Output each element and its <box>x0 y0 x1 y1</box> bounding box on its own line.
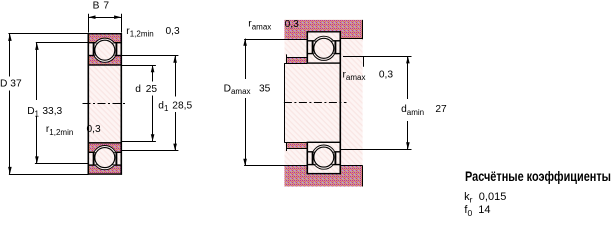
right bearing cross-section <box>307 32 340 174</box>
svg-text:33,3: 33,3 <box>42 106 62 117</box>
outer ring bottom section <box>88 165 121 174</box>
housing section bottom <box>285 166 363 187</box>
centerline left <box>83 103 127 105</box>
svg-text:0,3: 0,3 <box>379 70 393 81</box>
bearing side faces <box>306 31 308 63</box>
svg-text:Расчётные коэффициенты: Расчётные коэффициенты <box>465 168 611 184</box>
svg-text:27: 27 <box>435 104 447 115</box>
svg-text:28,5: 28,5 <box>172 100 192 111</box>
inner ring top section <box>88 56 121 66</box>
svg-text:d: d <box>135 84 141 95</box>
label r_amax 0,3 middle <box>363 56 365 67</box>
shaft <box>284 63 286 142</box>
shaft shoulder top <box>287 57 307 63</box>
svg-text:B: B <box>93 0 100 11</box>
ring shoulder lines <box>312 41 314 54</box>
outer ring top section <box>307 32 340 41</box>
ring shoulder lines <box>93 43 95 56</box>
svg-text:35: 35 <box>259 84 271 95</box>
svg-text:25: 25 <box>146 84 158 95</box>
left bearing cross-section <box>88 34 121 174</box>
inner ring bottom section <box>307 142 340 152</box>
bearing side faces <box>87 33 89 175</box>
inner ring bottom section <box>88 143 121 153</box>
dimension d_amin 27 <box>343 56 412 58</box>
inner ring top section <box>307 54 340 64</box>
svg-text:0,015: 0,015 <box>479 191 507 203</box>
svg-text:0,3: 0,3 <box>166 26 180 37</box>
svg-text:14: 14 <box>478 204 490 216</box>
ball bottom <box>95 148 115 168</box>
dimension Damax 35 <box>244 39 284 41</box>
svg-text:D: D <box>0 79 7 90</box>
ball bottom <box>314 147 334 167</box>
ball top <box>314 38 334 58</box>
outer ring top section <box>88 34 121 43</box>
dimension D 37 <box>8 33 88 35</box>
dimension d 25 <box>121 65 156 67</box>
svg-text:0,3: 0,3 <box>285 19 299 30</box>
svg-text:37: 37 <box>10 79 22 90</box>
svg-text:0,3: 0,3 <box>87 124 101 135</box>
shaft shoulder bottom <box>287 142 307 148</box>
centerline right <box>284 102 347 104</box>
dimension D1 33,3 <box>36 42 89 44</box>
outer ring bottom section <box>307 165 340 174</box>
housing section top <box>285 20 363 39</box>
svg-text:7: 7 <box>103 0 109 11</box>
right figure background <box>285 20 363 186</box>
dimension d1 28,5 <box>121 55 178 57</box>
ball top <box>95 40 115 60</box>
